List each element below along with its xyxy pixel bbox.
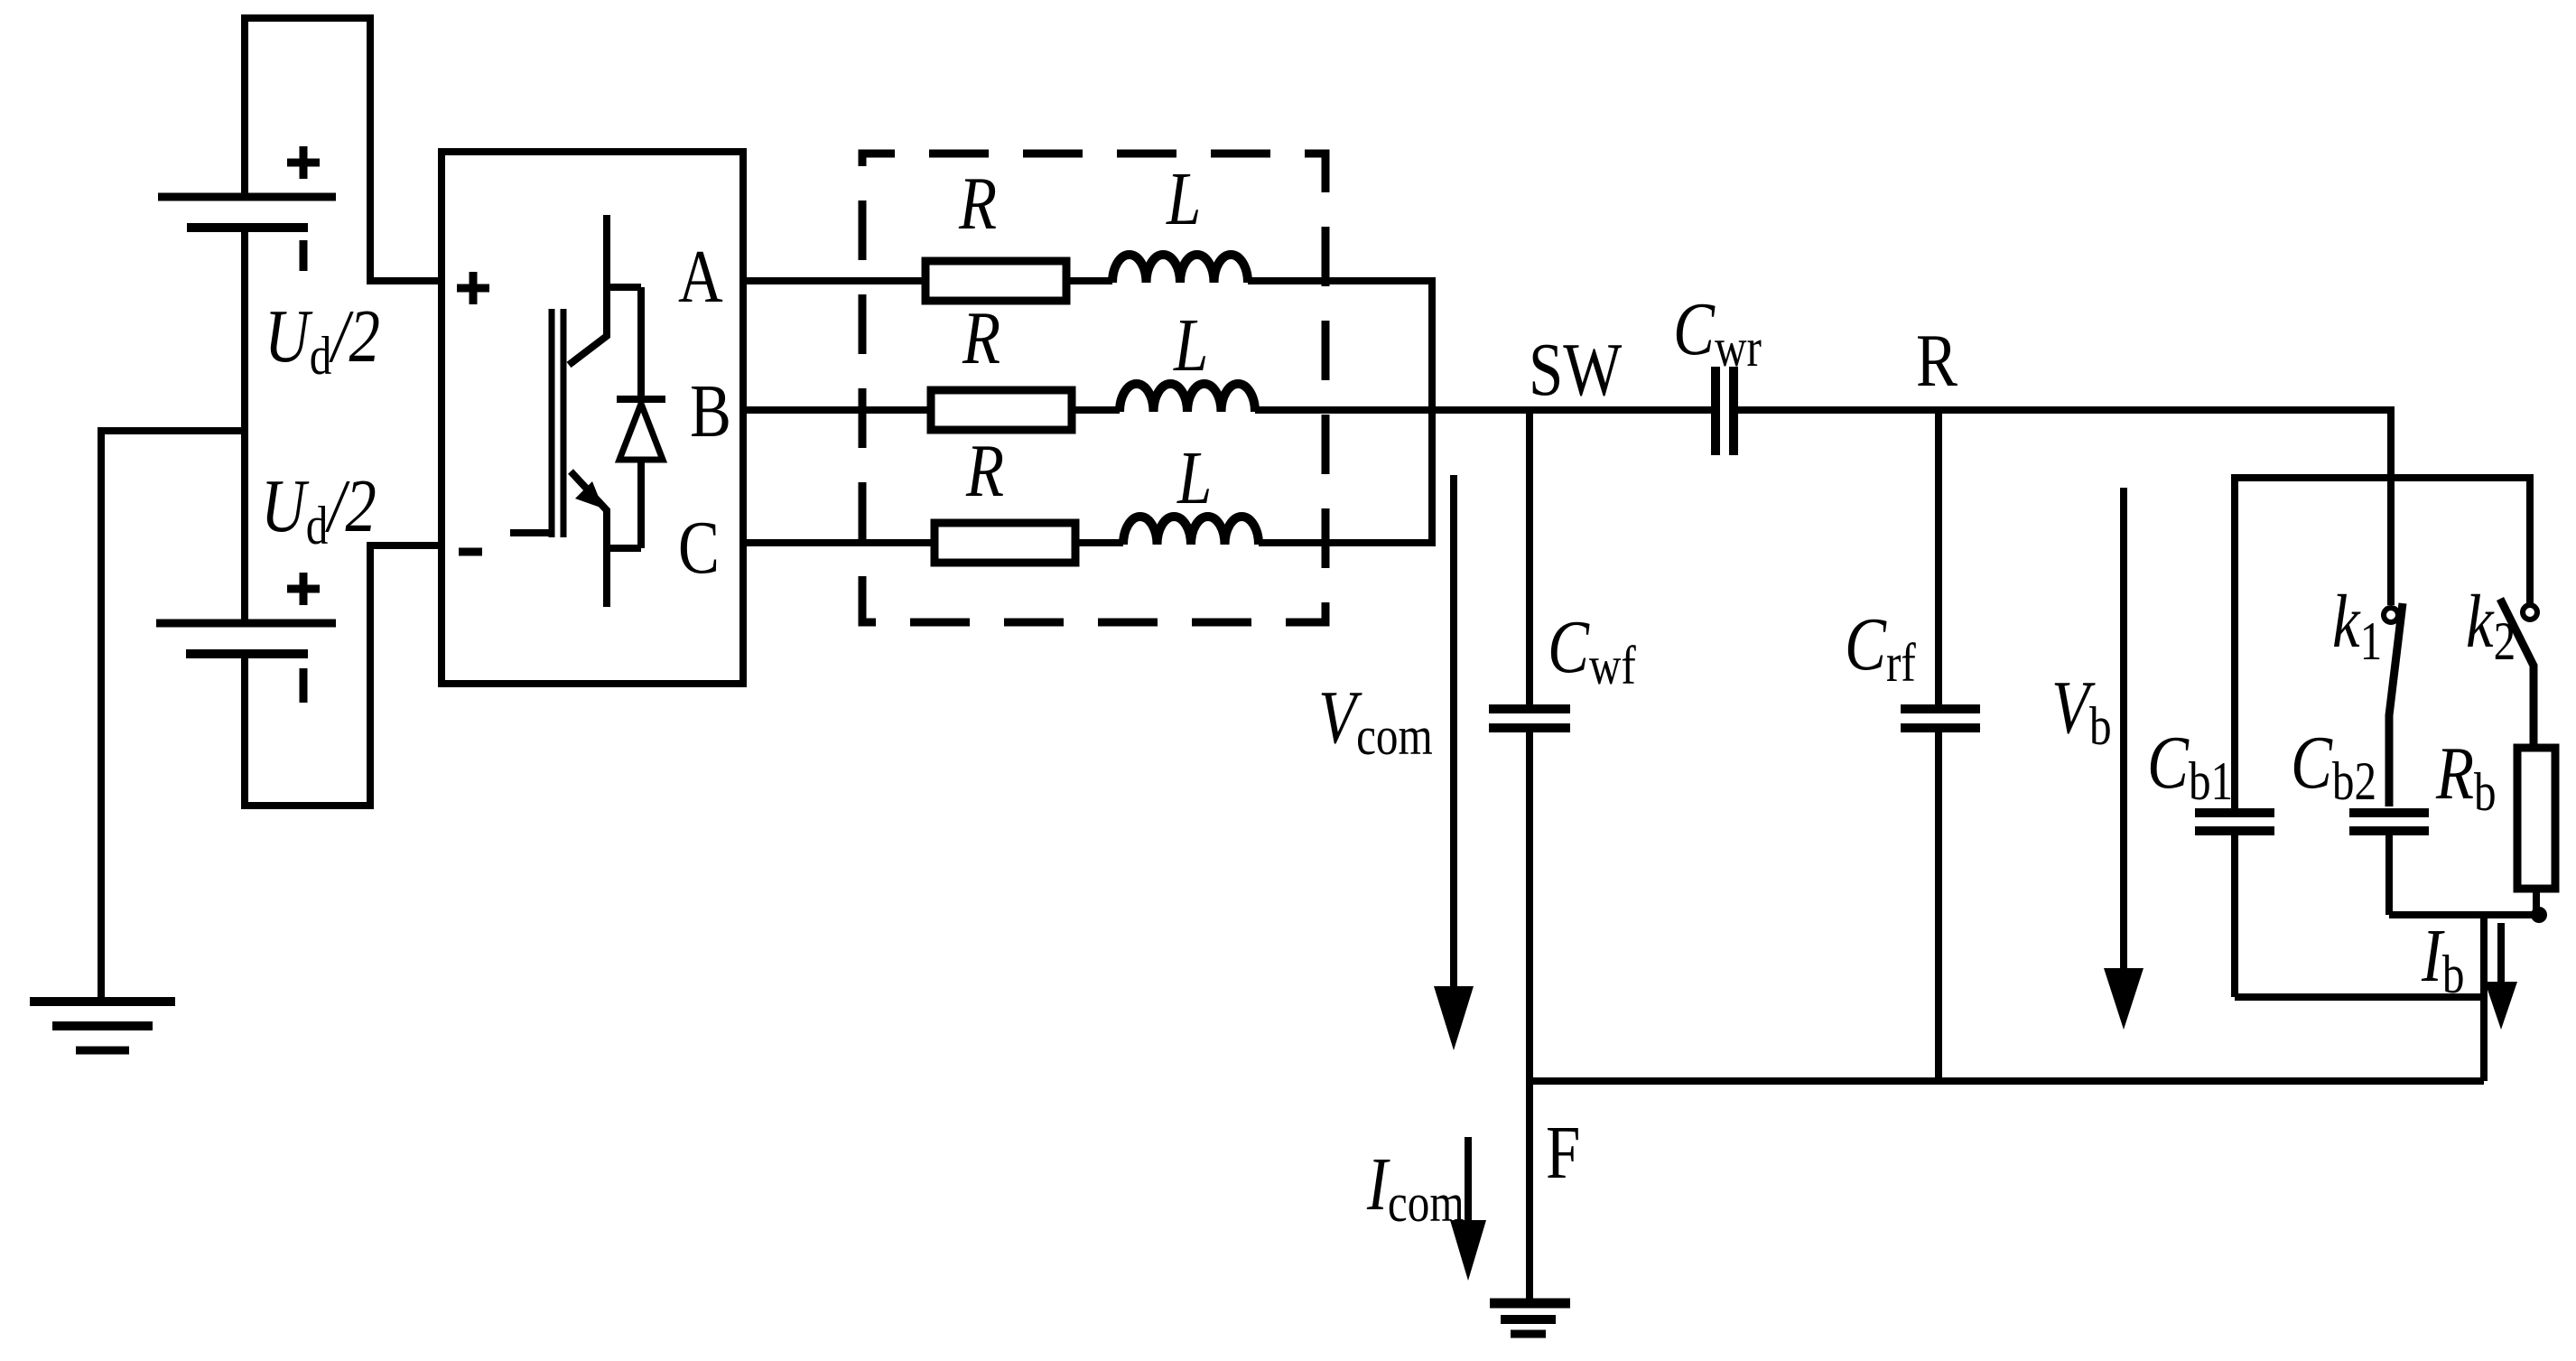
ground left [30,997,175,1006]
plus terminal [457,272,489,304]
wire SW branch down [1526,410,1533,704]
wire Cb2 bottom [2385,835,2393,915]
wire Cwf bottom to ground [1526,732,1533,1302]
capacitor Cb1 [2195,813,2274,831]
svg-text:C: C [678,506,720,590]
switch k1 circle [2384,608,2398,622]
svg-text:L: L [1173,303,1208,387]
IGBT bars [549,309,555,537]
resistor R phase C [935,523,1075,563]
svg-text:Ud/2: Ud/2 [261,464,377,555]
svg-text:Cb2: Cb2 [2291,721,2376,811]
IGBT collector [569,215,607,365]
diode D1 anode lead [607,460,641,548]
svg-text:Rb: Rb [2435,732,2497,822]
svg-text:R: R [965,429,1004,513]
inner box top [2235,478,2530,808]
svg-text:SW: SW [1529,328,1623,412]
plus sign lower battery [287,573,320,605]
wire DC top rail [245,18,442,281]
capacitor Cb2 [2349,813,2429,831]
wire midpoint tap to left ground [101,431,245,1002]
arrow Vb [2120,488,2127,971]
inverter box [442,152,743,684]
wire Crf bottom [1935,732,1942,1081]
minus terminal [459,548,482,556]
wire Cb1 bottom [2231,835,2238,997]
inductor L phase C [1123,517,1259,545]
svg-text:Icom: Icom [1366,1142,1465,1233]
minus sign lower battery [300,668,308,703]
diode D1 top connector [607,287,641,399]
IGBT gate lead [510,529,552,536]
capacitor battery lower plates [156,620,336,628]
svg-text:L: L [1176,436,1212,520]
svg-text:F: F [1546,1111,1580,1195]
inner box bottom [2235,993,2484,1001]
svg-text:Cwf: Cwf [1548,605,1637,695]
wire phase A [743,281,1432,543]
minus sign upper battery [300,240,308,271]
resistor R phase A [925,261,1066,301]
wire Rb bottom [2533,889,2540,915]
resistor Rb [2517,748,2555,889]
svg-text:R: R [962,296,1000,380]
capacitor Crf [1901,709,1980,728]
arrow Vcom [1450,475,1457,989]
wire right drop [2480,915,2488,1081]
IGBT emitter arrowhead [575,481,603,508]
resistor R phase B [931,390,1072,430]
svg-text:Vb: Vb [2051,666,2112,756]
svg-text:k2: k2 [2466,580,2516,671]
svg-text:R: R [1916,319,1958,403]
svg-text:A: A [678,235,723,319]
ground bottom [1490,1299,1570,1309]
svg-text:L: L [1166,157,1201,241]
diode D1 cathode bar [617,396,665,403]
wire phase B [743,406,1711,414]
switch k2 blade [2500,599,2534,748]
junction dot [2531,907,2547,923]
switch k1 blade [2389,603,2403,806]
wire Cb2-Rb bottom bus [2389,911,2539,918]
wire battery2 bottom to inverter minus [245,545,442,806]
diode D1 triangle [619,404,663,460]
svg-text:Ib: Ib [2421,914,2464,1004]
switch k2 circle [2523,605,2537,620]
wire R node branch [1935,410,1942,704]
wire battery1 to battery2 stem [241,228,248,623]
inductor L phase A [1112,255,1248,283]
main wire right of Cwr [1738,410,2391,605]
inductor L phase B [1120,384,1255,412]
capacitor Cwf [1489,709,1570,728]
svg-text:Vcom: Vcom [1318,676,1433,766]
arrow Ib [2497,923,2505,984]
IGBT emitter [571,471,607,607]
svg-text:R: R [958,162,997,246]
capacitor battery upper plates [158,193,336,201]
bottom rail [1530,1077,2484,1085]
capacitor Cwr [1711,367,1720,455]
dashed filter box [862,154,1325,622]
svg-text:Cwr: Cwr [1673,287,1762,378]
arrow Icom [1465,1137,1472,1224]
svg-text:Crf: Crf [1845,602,1916,693]
svg-text:k1: k1 [2332,580,2382,671]
svg-text:Ud/2: Ud/2 [265,294,380,386]
svg-text:B: B [690,369,731,453]
svg-text:Cb1: Cb1 [2147,721,2233,811]
plus sign upper battery [287,146,320,179]
wire phase C [743,539,1436,546]
